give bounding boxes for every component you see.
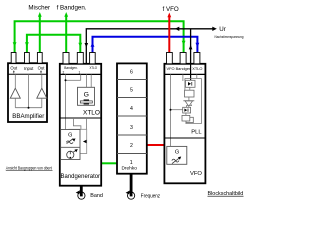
wire blue arrowhead down into VFO t3 [196, 43, 200, 48]
wire lower section verticals [73, 118, 86, 130]
svg-text:G: G [68, 132, 72, 138]
svg-text:Mischer: Mischer [28, 5, 50, 12]
svg-text:G: G [175, 149, 179, 155]
wire red f VFO [168, 16, 170, 54]
node Bandgen junction dot [65, 79, 67, 81]
wire red Drehko to VFO [147, 144, 165, 146]
connector Band knob [78, 192, 85, 199]
BBAmp header separator [8, 73, 47, 75]
svg-text:2: 2 [130, 143, 133, 149]
rotation arrow Frequenz [126, 190, 130, 194]
VFO section divider [164, 137, 205, 139]
oscillator G VFO box [167, 146, 187, 164]
terminal VFO t2 [180, 53, 186, 64]
wire blue arrowhead up at Bandgen t3 [91, 42, 95, 47]
PLL box4 counter [186, 117, 193, 122]
wire green arrowhead up Mischer [38, 12, 42, 17]
svg-text:Ur: Ur [219, 26, 226, 33]
wire black arrowhead right to Ur [212, 27, 217, 31]
svg-text:Input: Input [24, 66, 34, 71]
wire black into PLL [190, 64, 192, 81]
VFO header separator [164, 73, 205, 75]
node PLL junction dot [170, 109, 172, 111]
terminal BBAmp Out2 [37, 53, 42, 64]
block Bandgenerator [60, 64, 101, 186]
block VFO module [164, 64, 205, 184]
PLL box1 phase detector [186, 80, 196, 87]
svg-text:Bandgenerator: Bandgenerator [61, 173, 101, 180]
connector Frequenz knob [128, 192, 135, 199]
svg-text:VFO Bandgen XTLO: VFO Bandgen XTLO [167, 66, 203, 71]
svg-text:Drehko: Drehko [121, 166, 137, 172]
svg-text:1: 1 [130, 160, 133, 166]
wire green arrowhead down into Bandgen t2 [78, 43, 82, 48]
svg-text:Bandgen.: Bandgen. [64, 65, 78, 70]
wire green Bandgenerator to Drehko [101, 162, 117, 164]
wire green Mischer output [39, 15, 41, 54]
wire green horizontal bus y20 [15, 21, 184, 53]
wire black arrowhead up from VFO [189, 45, 193, 50]
svg-text:BBAmplifier: BBAmplifier [12, 113, 45, 120]
svg-text:VFO: VFO [190, 171, 202, 177]
block Drehko [117, 63, 147, 173]
svg-text:Frequenz: Frequenz [141, 193, 161, 199]
svg-text:6: 6 [130, 69, 133, 75]
terminal Bandgen t3 [90, 53, 96, 64]
wire green arrowhead down into VFO t2 [182, 41, 186, 46]
wire green arrowhead up f Bandgen [64, 12, 68, 17]
pin 1 mark under Out1 [13, 71, 15, 74]
svg-text:Ansicht Baugruppen von oben!: Ansicht Baugruppen von oben! [6, 165, 53, 170]
svg-text:5: 5 [130, 87, 133, 93]
wire BBAmp internal [15, 74, 42, 108]
wire black arrowhead left mid [175, 27, 180, 31]
block U1 BBAmplifier [8, 63, 47, 122]
PLL box2 filter [185, 90, 195, 97]
terminal VFO t3 [194, 53, 200, 64]
wire blue Bandgen t3 to VFO t3 [93, 37, 198, 54]
varactor circle symbol [67, 151, 74, 158]
svg-text:3: 3 [130, 125, 133, 131]
wire Bandgen internal verticals [66, 74, 92, 129]
sine arrow symbol [66, 141, 73, 144]
Bandgen header separator [60, 73, 101, 75]
svg-text:2: 2 [63, 71, 65, 75]
Bandgen section divider [60, 117, 102, 119]
svg-text:4: 4 [130, 106, 133, 112]
svg-text:Out: Out [10, 66, 18, 71]
wire red arrowhead up f VFO [167, 13, 171, 18]
svg-text:f Bandgen.: f Bandgen. [57, 5, 87, 12]
rotation arrow Band [76, 190, 80, 194]
amplifier A2 triangle [37, 88, 47, 98]
pin 1 mark under Out2 [40, 71, 42, 74]
connector Frequenz stub [130, 174, 133, 197]
terminal Bandgen t2 [77, 53, 83, 64]
wire green horizontal y34 BBAmp input to Bandgen [27, 35, 80, 54]
terminal BBAmp Input [25, 53, 30, 64]
amplifier A1 triangle [10, 88, 20, 98]
PLL amplifier triangle [183, 100, 194, 102]
terminal Bandgen t1 [63, 53, 69, 64]
oscillator G band box [61, 130, 80, 160]
arrowhead into band box [84, 141, 87, 143]
secondary band box [69, 129, 87, 153]
wire VFO left vertical [171, 74, 183, 146]
wire green arrowhead down into BBAmp Out1 [13, 42, 17, 47]
svg-text:1: 1 [79, 71, 81, 75]
svg-text:Band: Band [90, 193, 103, 199]
wire black arrowhead down into Bandgen [85, 43, 89, 48]
wire green arrowhead down into BBAmp Input [25, 42, 29, 47]
terminal BBAmp Out1 [11, 53, 16, 64]
wire black Ur line [86, 29, 212, 64]
crystal symbol [84, 99, 89, 101]
Drehko cell dividers [117, 80, 147, 154]
PLL box3 divider [183, 107, 191, 113]
svg-text:G: G [84, 92, 89, 99]
svg-text:XTLO: XTLO [83, 110, 100, 117]
terminal VFO t1 [167, 53, 173, 64]
svg-text:PLL: PLL [191, 130, 202, 136]
connector Band stub [80, 186, 83, 197]
sine arrow symbol VFO [172, 159, 179, 162]
node BBAmp junction dot [28, 107, 30, 109]
wire green f Bandgen output [65, 15, 67, 54]
svg-text:Out: Out [38, 66, 46, 71]
svg-text:f VFO: f VFO [163, 6, 179, 13]
svg-text:Nachstimmspannung: Nachstimmspannung [215, 35, 244, 39]
wire PLL connectors [183, 74, 202, 123]
svg-text:XTLO: XTLO [90, 65, 98, 70]
oscillator G XTLO box [78, 87, 95, 105]
